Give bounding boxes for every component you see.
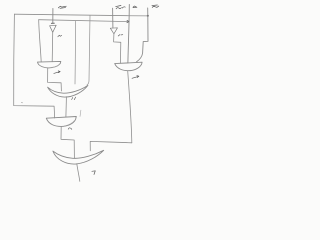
paper speck <box>21 102 24 104</box>
label T2 <box>116 6 122 9</box>
input terminal T3 <box>128 5 129 63</box>
wire W_B bus2 to G1 left <box>39 20 42 62</box>
wire G3 output step to G4 <box>61 127 74 158</box>
wire bus1 horizontal <box>14 14 148 16</box>
wire G5 output down <box>128 71 132 143</box>
input terminal T4 <box>137 8 149 62</box>
inverter U1 <box>50 25 57 32</box>
label near U2 <box>118 35 123 36</box>
junction tick on T1 <box>51 22 54 24</box>
label T3 <box>122 6 137 8</box>
wire U2 to G5 <box>114 34 121 64</box>
wire horizontal to G4 right input <box>90 141 132 150</box>
OR gate G2 <box>48 85 88 97</box>
label T4 <box>152 5 159 7</box>
wire U1 to G1 <box>51 32 54 61</box>
junction dot bus1 at T4 <box>147 15 149 17</box>
label near U1 <box>58 35 62 37</box>
label T1 <box>58 6 66 8</box>
flow arrow near G1 output <box>54 71 60 74</box>
wire W_D bus1 to G2 right <box>87 16 90 85</box>
input terminal T2 <box>112 8 114 28</box>
label near G3 output <box>68 128 72 130</box>
OR gate G4 <box>53 150 104 164</box>
pen tail at G3 top right <box>79 110 82 116</box>
AND gate G3 <box>46 117 76 127</box>
wire W_C bus2 to G2 middle <box>74 21 76 84</box>
AND gate G1 <box>38 61 61 68</box>
label near G4 output <box>92 171 95 175</box>
AND gate G5 <box>115 62 142 70</box>
wire G1 output step to G2 <box>48 68 62 91</box>
wire bus2 horizontal <box>39 20 130 22</box>
inverter U2 <box>110 28 117 34</box>
wire left feedback W_E <box>14 14 55 118</box>
retrace stroke on G1 bowl <box>51 64 60 67</box>
retrace stroke on G3 bowl <box>64 120 74 126</box>
flow arrow near G5 output <box>132 76 139 79</box>
input terminal T1 <box>52 9 54 24</box>
wire G4 output <box>77 164 80 182</box>
wire G2 output to G3 <box>65 97 68 117</box>
junction arrow bus2 at T3 <box>127 21 129 23</box>
label near G2 output <box>72 97 76 100</box>
